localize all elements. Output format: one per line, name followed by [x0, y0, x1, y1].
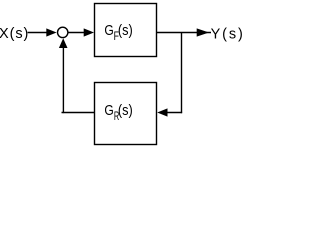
wire feedback into G_R block [166, 112, 182, 114]
svg-text:Y(s): Y(s) [211, 26, 243, 42]
wire branch point down from output [181, 33, 183, 114]
summing junction [58, 27, 68, 37]
arrowhead into summing junction from below [59, 38, 68, 48]
svg-text:G: G [104, 23, 113, 39]
arrowhead into summing junction [46, 28, 56, 36]
arrowhead to Y(s) [197, 28, 209, 36]
wire G_R output left [62, 112, 95, 114]
wire summing junction to G_F block [68, 32, 85, 34]
wire G_F output to Y(s) [157, 32, 212, 34]
block G_F [95, 4, 157, 57]
svg-text:X(s): X(s) [0, 26, 28, 42]
svg-text:(s): (s) [118, 103, 133, 119]
wire X(s) to summing junction [28, 32, 48, 34]
svg-text:(s): (s) [118, 23, 133, 39]
wire up to summing junction [62, 48, 64, 114]
arrowhead into G_F block [84, 28, 94, 36]
svg-text:G: G [104, 103, 113, 119]
arrowhead into G_R block [157, 108, 167, 116]
block G_R [95, 83, 157, 145]
